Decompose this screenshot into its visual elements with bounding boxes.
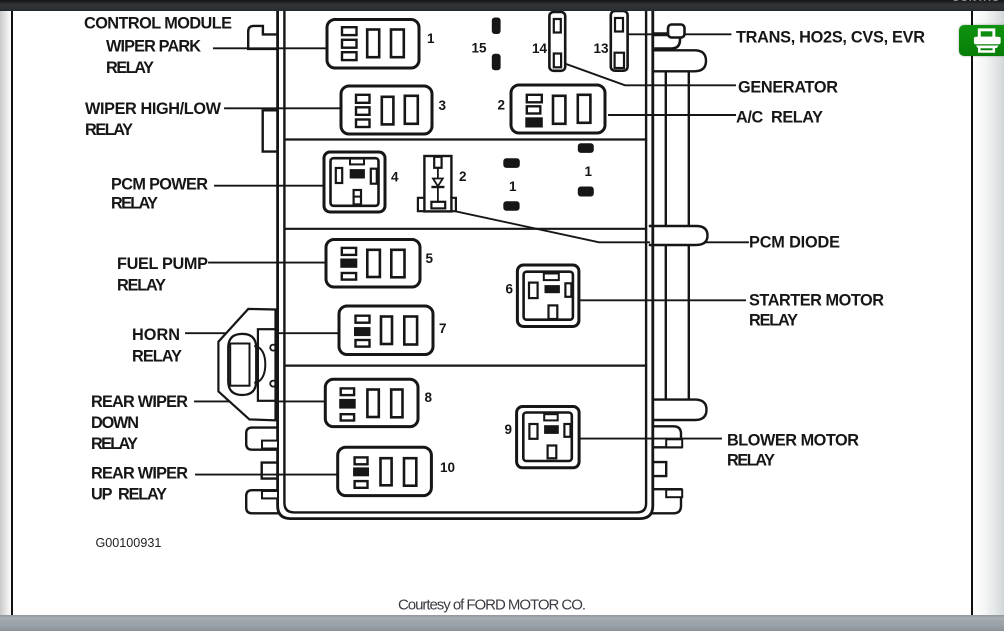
left mounting tab 2 bbox=[262, 463, 278, 479]
relay 4 (pcm power) bbox=[324, 152, 385, 212]
pin number 7 bbox=[439, 321, 447, 336]
fuse box inner shell bbox=[284, 0, 646, 512]
svg-text:UP RELAY: UP RELAY bbox=[91, 486, 167, 504]
rail capsule middle bbox=[650, 226, 708, 245]
divider line 1 bbox=[285, 138, 646, 140]
svg-text:RELAY: RELAY bbox=[727, 452, 775, 470]
bus rail left bbox=[665, 70, 667, 400]
fuse box outer shell bbox=[278, 0, 653, 519]
left page-edge gradient bbox=[0, 11, 11, 615]
wire horn leader bbox=[186, 332, 339, 334]
label rear wiper down relay bbox=[91, 393, 188, 453]
svg-text:RELAY: RELAY bbox=[749, 312, 798, 330]
svg-text:RELAY: RELAY bbox=[117, 277, 166, 295]
svg-text:RELAY: RELAY bbox=[132, 348, 182, 366]
horn bracket hole bottom bbox=[270, 381, 276, 387]
divider line 2 bbox=[285, 228, 646, 230]
label wiper park relay bbox=[106, 38, 201, 77]
pin number 1 (fuse right) bbox=[585, 164, 593, 179]
print button bbox=[959, 25, 1004, 56]
horn bracket hole top bbox=[270, 345, 276, 351]
fuse holder 13 bbox=[611, 11, 628, 71]
svg-text:TRANS, HO2S, CVS, EVR: TRANS, HO2S, CVS, EVR bbox=[736, 29, 925, 47]
svg-text:8: 8 bbox=[425, 390, 433, 405]
pin number 3 bbox=[439, 98, 447, 113]
svg-text:PCM DIODE: PCM DIODE bbox=[749, 234, 840, 252]
svg-text:7: 7 bbox=[439, 321, 447, 336]
pin number 8 bbox=[425, 390, 433, 405]
pcm diode D2 bbox=[418, 156, 456, 211]
left mounting tab 1 bbox=[246, 428, 278, 450]
horn bracket plate bbox=[218, 309, 275, 421]
wire pcm power leader bbox=[215, 185, 324, 187]
svg-text:DOWN: DOWN bbox=[91, 414, 139, 432]
svg-text:PCM POWER: PCM POWER bbox=[111, 176, 208, 194]
wire wiper high/low leader bbox=[225, 107, 341, 109]
relay 10 (rear wiper up) bbox=[338, 447, 432, 495]
left mounting tab 3 bbox=[246, 490, 278, 513]
right mounting tab 1 bbox=[653, 426, 682, 447]
relay 6 (starter motor) bbox=[517, 265, 579, 327]
svg-text:3: 3 bbox=[439, 98, 447, 113]
right page border line bbox=[971, 11, 973, 615]
printer icon bbox=[979, 29, 994, 37]
relay 8 (rear wiper down) bbox=[325, 379, 418, 426]
svg-text:G00100931: G00100931 bbox=[96, 536, 162, 550]
svg-text:REAR WIPER: REAR WIPER bbox=[91, 393, 188, 411]
pin number 1 bbox=[427, 31, 435, 46]
wire generator leader bbox=[566, 64, 736, 86]
top-left mounting tab (control module) bbox=[248, 26, 277, 49]
wire wiper park leader bbox=[214, 47, 327, 49]
horn bracket d-arc bbox=[255, 346, 265, 382]
right page-edge gradient bbox=[973, 11, 1004, 615]
relay 1 (wiper park) bbox=[327, 20, 419, 69]
svg-text:2: 2 bbox=[498, 98, 506, 113]
svg-text:2: 2 bbox=[459, 169, 467, 184]
relay 9 (blower motor) bbox=[517, 407, 580, 468]
svg-text:RELAY: RELAY bbox=[85, 121, 133, 139]
caption courtesy of ford motor co. bbox=[398, 597, 586, 614]
label generator bbox=[738, 79, 838, 97]
label trans ho2s cvs evr bbox=[736, 29, 925, 47]
wire pcm diode leader bbox=[457, 212, 749, 243]
pin number 13 bbox=[594, 41, 610, 56]
pin number 2 (a/c) bbox=[498, 98, 506, 113]
left page border line bbox=[11, 11, 13, 615]
label fuel pump relay bbox=[117, 255, 208, 295]
figure id G00100931 bbox=[96, 536, 162, 550]
svg-text:1: 1 bbox=[585, 164, 593, 179]
relay 5 (fuel pump) bbox=[326, 240, 420, 288]
svg-text:STARTER MOTOR: STARTER MOTOR bbox=[749, 292, 884, 310]
svg-text:BLOWER MOTOR: BLOWER MOTOR bbox=[727, 432, 859, 450]
svg-text:WIPER HIGH/LOW: WIPER HIGH/LOW bbox=[85, 100, 222, 118]
toolbar clipped text CONTACT bbox=[952, 0, 1000, 4]
svg-text:A/C RELAY: A/C RELAY bbox=[736, 109, 823, 127]
left edge tab (wiper high/low row) bbox=[263, 110, 278, 151]
label rear wiper up relay bbox=[91, 465, 188, 504]
wire starter motor leader bbox=[580, 299, 746, 301]
pin number 9 bbox=[505, 422, 513, 437]
svg-text:15: 15 bbox=[472, 41, 488, 56]
label horn relay bbox=[132, 326, 182, 366]
top-right hook tab bbox=[656, 25, 685, 49]
label starter motor relay bbox=[749, 292, 884, 330]
svg-text:1: 1 bbox=[509, 179, 517, 194]
svg-text:FUEL PUMP: FUEL PUMP bbox=[117, 255, 208, 273]
relay 2 (a/c) bbox=[511, 85, 605, 133]
svg-text:10: 10 bbox=[440, 460, 455, 475]
wire fuel pump leader bbox=[209, 262, 326, 264]
svg-text:5: 5 bbox=[426, 251, 434, 266]
pin number 4 bbox=[391, 170, 399, 185]
divider line 3 bbox=[285, 365, 646, 367]
relay 3 (wiper high/low) bbox=[341, 86, 432, 134]
svg-text:REAR WIPER: REAR WIPER bbox=[91, 465, 188, 483]
svg-text:4: 4 bbox=[391, 170, 399, 185]
svg-text:6: 6 bbox=[506, 282, 514, 297]
pin number 6 bbox=[506, 282, 514, 297]
top toolbar bar bbox=[0, 0, 1004, 11]
svg-text:RELAY: RELAY bbox=[111, 195, 158, 213]
relay 7 (horn) bbox=[339, 306, 433, 355]
pin number 5 bbox=[426, 251, 434, 266]
horn bracket slot bbox=[228, 334, 256, 395]
bus rail right bbox=[688, 70, 690, 400]
label wiper high/low relay bbox=[85, 100, 222, 139]
svg-text:Courtesy of FORD MOTOR CO.: Courtesy of FORD MOTOR CO. bbox=[398, 597, 586, 614]
wire blower motor leader bbox=[580, 438, 721, 440]
horn bracket slot inner bbox=[230, 344, 249, 386]
pin number 10 bbox=[440, 460, 455, 475]
rail capsule top bbox=[654, 50, 707, 71]
svg-text:9: 9 bbox=[505, 422, 513, 437]
wire a/c relay leader bbox=[609, 114, 735, 116]
svg-text:HORN: HORN bbox=[132, 326, 180, 344]
bottom status bar bbox=[0, 615, 1004, 631]
pin number 15 bbox=[472, 41, 488, 56]
fuse 1 (left pair) bbox=[504, 159, 520, 210]
pin number 14 bbox=[532, 41, 548, 56]
label a/c relay bbox=[736, 109, 823, 127]
svg-text:13: 13 bbox=[594, 41, 610, 56]
label pcm power relay bbox=[111, 176, 208, 213]
horn bracket side plate bbox=[258, 329, 277, 401]
pin number 2 (diode) bbox=[459, 169, 467, 184]
svg-text:14: 14 bbox=[532, 41, 548, 56]
rail capsule bottom bbox=[654, 400, 707, 420]
right mounting tab 3 bbox=[653, 489, 682, 513]
wire rear wiper down leader bbox=[195, 400, 326, 402]
fuse holder 14 bbox=[549, 12, 565, 71]
svg-text:RELAY: RELAY bbox=[106, 59, 154, 77]
svg-text:GENERATOR: GENERATOR bbox=[738, 79, 838, 97]
right mounting tab 2 bbox=[653, 462, 666, 476]
label control module bbox=[84, 15, 232, 33]
svg-text:1: 1 bbox=[427, 31, 435, 46]
svg-text:CONTROL MODULE: CONTROL MODULE bbox=[84, 15, 232, 33]
svg-text:WIPER PARK: WIPER PARK bbox=[106, 38, 201, 56]
svg-text:RELAY: RELAY bbox=[91, 435, 138, 453]
wire rear wiper up leader bbox=[196, 474, 338, 476]
wire trans ho2s cvs evr leader bbox=[628, 33, 731, 35]
label blower motor relay bbox=[727, 432, 859, 470]
fuse 15 bbox=[492, 18, 500, 70]
pin number 1 (fuse left) bbox=[509, 179, 517, 194]
label pcm diode bbox=[749, 234, 840, 252]
fuse 1 (right pair) bbox=[578, 144, 593, 196]
